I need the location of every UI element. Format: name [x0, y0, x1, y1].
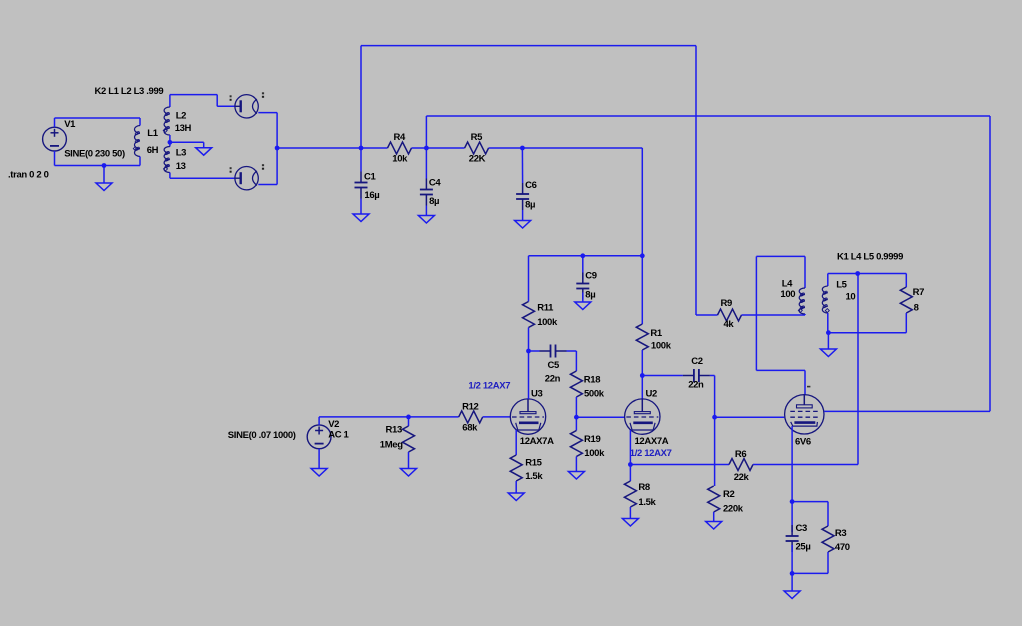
ground R13: [401, 469, 417, 477]
svg-text:10: 10: [846, 292, 856, 303]
svg-text:500k: 500k: [584, 389, 605, 400]
resistor R1: [641, 256, 643, 324]
node U2 cathode junction: [628, 462, 633, 467]
wire upper diode cathode: [258, 112, 277, 114]
inductor L4: [804, 256, 806, 288]
svg-text:SINE(0 .07 1000): SINE(0 .07 1000): [228, 430, 296, 441]
svg-text:6H: 6H: [147, 145, 159, 156]
node U2 grid junction: [574, 415, 579, 420]
ground C4: [418, 216, 434, 224]
svg-text:C9: C9: [585, 271, 597, 282]
svg-text:R9: R9: [721, 298, 733, 309]
resistor R5: [426, 147, 464, 149]
ground R19: [568, 472, 584, 480]
node C4 junction: [424, 146, 429, 151]
resistor R9: [696, 314, 718, 316]
svg-text:C3: C3: [796, 523, 808, 534]
svg-text:100k: 100k: [584, 448, 605, 459]
capacitor C5: [529, 350, 540, 352]
svg-text:13H: 13H: [175, 123, 192, 134]
svg-text:K2 L1 L2 L3 .999: K2 L1 L2 L3 .999: [95, 86, 164, 97]
wire screen rail: [425, 116, 427, 148]
node U3 anode junction: [526, 349, 531, 354]
svg-text:R7: R7: [913, 287, 925, 298]
svg-text:12AX7A: 12AX7A: [635, 436, 669, 447]
svg-text:4k: 4k: [724, 319, 735, 330]
ground V2: [311, 469, 327, 477]
svg-text:220k: 220k: [723, 503, 744, 514]
capacitor C2: [642, 375, 683, 377]
wire U2 anode: [641, 376, 643, 399]
wire cathode network top: [792, 501, 828, 503]
node V1 ground tap: [102, 163, 107, 168]
capacitor C3: [791, 502, 793, 532]
svg-text:R8: R8: [638, 482, 650, 493]
wire B+ to preamp: [522, 147, 642, 149]
wire L4 loop: [755, 256, 757, 370]
svg-text:100: 100: [780, 289, 795, 300]
voltage source V1: [43, 127, 67, 151]
svg-text:C4: C4: [429, 178, 442, 189]
resistor R12: [459, 411, 483, 423]
ground C1: [353, 214, 369, 222]
voltage source V2: [307, 425, 331, 449]
resistor R8: [629, 465, 631, 482]
triode U3: [510, 399, 545, 434]
svg-text:R1: R1: [650, 328, 663, 339]
svg-text:8µ: 8µ: [525, 200, 535, 211]
resistor R13: [408, 417, 410, 426]
ground V1: [96, 183, 112, 191]
svg-text:R19: R19: [584, 434, 600, 445]
capacitor C1: [360, 148, 362, 172]
triode U2: [625, 399, 660, 434]
node transformer center tap: [168, 140, 173, 145]
rectifier diode tube lower: [235, 167, 258, 190]
svg-text:K1 L4 L5 0.9999: K1 L4 L5 0.9999: [837, 251, 903, 262]
svg-text:R5: R5: [471, 132, 484, 143]
svg-text:R11: R11: [537, 302, 554, 313]
svg-text:L1: L1: [147, 128, 158, 139]
node 6V6 cathode junction: [790, 499, 795, 504]
capacitor C9: [582, 256, 584, 280]
inductor L5: [827, 274, 829, 287]
wire C3 ground stem: [791, 573, 793, 591]
resistor R15: [510, 455, 522, 481]
ground R15: [508, 493, 524, 501]
pin mark 6V6: [807, 386, 810, 388]
svg-text:C5: C5: [548, 360, 561, 371]
svg-text:22k: 22k: [734, 472, 750, 483]
svg-text:R12: R12: [462, 401, 478, 412]
node L5 bottom junction: [826, 330, 831, 335]
svg-text:R15: R15: [525, 458, 542, 469]
svg-text:L3: L3: [176, 147, 186, 158]
node U2 anode junction: [640, 373, 645, 378]
node rectifier output: [275, 146, 280, 151]
wire U3 anode: [528, 351, 530, 399]
ground C6: [515, 221, 531, 229]
node C6 junction: [520, 146, 525, 151]
resistor R11: [528, 256, 530, 302]
svg-text:V1: V1: [64, 119, 76, 130]
wire L5 bottom to R7: [828, 332, 907, 334]
resistor R4: [361, 147, 388, 149]
svg-text:68k: 68k: [462, 423, 478, 434]
svg-text:C2: C2: [691, 356, 703, 367]
wire preamp B+ rail: [529, 255, 643, 257]
resistor R7: [905, 274, 907, 288]
svg-text:12AX7A: 12AX7A: [520, 436, 554, 447]
resistor R6: [630, 464, 729, 466]
svg-text:R4: R4: [394, 132, 407, 143]
svg-text:1Meg: 1Meg: [380, 440, 403, 451]
svg-text:U2: U2: [646, 389, 658, 400]
svg-text:470: 470: [835, 542, 850, 553]
inductor L1: [139, 118, 141, 126]
resistor R19: [575, 417, 577, 430]
wire 6V6 grid: [715, 416, 785, 418]
svg-text:100k: 100k: [537, 317, 558, 328]
pentode 6V6: [785, 395, 824, 434]
svg-text:25µ: 25µ: [796, 542, 811, 553]
capacitor C6: [521, 148, 523, 183]
svg-text:R18: R18: [584, 375, 600, 386]
inductor L3: [169, 142, 171, 146]
svg-text:.tran 0 2 0: .tran 0 2 0: [8, 170, 49, 181]
wire lower diode cathode: [258, 184, 277, 186]
svg-text:22K: 22K: [469, 154, 486, 165]
inductor L2: [169, 95, 171, 107]
node cathode network bottom: [790, 571, 795, 576]
wire L3 bottom to diode lower: [170, 177, 235, 179]
node C9 junction: [580, 253, 585, 258]
ground C3: [784, 591, 800, 599]
svg-text:8µ: 8µ: [429, 196, 439, 207]
wire 6V6 cathode: [791, 426, 793, 502]
svg-text:16µ: 16µ: [364, 190, 379, 201]
svg-text:10k: 10k: [392, 154, 408, 165]
wire R2 lead: [714, 417, 716, 486]
svg-text:100k: 100k: [651, 340, 672, 351]
node 6V6 grid junction: [712, 415, 717, 420]
node L5 top junction: [855, 271, 860, 276]
capacitor C4: [425, 148, 427, 179]
wire ground stem V1: [103, 166, 105, 184]
wire V2 to R12: [318, 417, 320, 425]
svg-text:1/2 12AX7: 1/2 12AX7: [630, 448, 672, 459]
svg-text:1/2 12AX7: 1/2 12AX7: [468, 380, 510, 391]
svg-text:L5: L5: [836, 280, 847, 291]
ground C9: [575, 302, 591, 310]
node R13 junction: [406, 415, 411, 420]
svg-text:R6: R6: [735, 449, 747, 460]
resistor R3: [822, 526, 834, 552]
wire top feedback rail: [361, 45, 696, 47]
node C1 junction: [359, 146, 364, 151]
wire center tap to ground: [170, 141, 204, 143]
wire U2 cathode: [629, 430, 631, 465]
resistor R18: [570, 371, 582, 397]
svg-text:8: 8: [914, 303, 919, 314]
resistor R2: [708, 486, 720, 512]
node R1 top junction: [640, 253, 645, 258]
svg-text:V2: V2: [328, 419, 339, 430]
wire U3 cathode: [515, 430, 517, 455]
svg-text:1.5k: 1.5k: [638, 497, 656, 508]
svg-text:13: 13: [176, 161, 186, 172]
svg-text:R13: R13: [386, 424, 402, 435]
svg-text:C1: C1: [364, 171, 377, 182]
wire rectifier to C1: [277, 147, 361, 149]
wire V1 bottom: [54, 151, 56, 166]
svg-text:22n: 22n: [688, 379, 704, 390]
svg-text:C6: C6: [525, 180, 537, 191]
wire U2 grid: [576, 416, 624, 418]
svg-text:22n: 22n: [545, 374, 561, 385]
svg-text:6V6: 6V6: [795, 436, 811, 447]
svg-text:1.5k: 1.5k: [525, 471, 543, 482]
svg-text:U3: U3: [531, 389, 543, 400]
svg-text:8µ: 8µ: [585, 290, 595, 301]
wire L5 top to R7: [828, 273, 907, 275]
wire 6V6 screen: [824, 410, 990, 412]
wire V2 bottom: [318, 449, 320, 469]
ground R2: [706, 522, 722, 530]
wire L5 ground stem: [827, 333, 829, 349]
rectifier diode tube upper: [235, 95, 258, 118]
svg-text:SINE(0 230 50): SINE(0 230 50): [64, 149, 125, 160]
svg-text:L2: L2: [176, 111, 186, 122]
ground L5: [820, 349, 836, 357]
wire V1 top to L1: [54, 118, 56, 127]
wire L2 top to diode U4: [170, 94, 217, 96]
wire feedback riser: [857, 274, 859, 465]
svg-text:AC 1: AC 1: [328, 430, 349, 441]
ground R8: [622, 519, 638, 527]
svg-text:R2: R2: [723, 489, 735, 500]
ground center tap: [196, 148, 212, 156]
svg-text:R3: R3: [835, 528, 847, 539]
